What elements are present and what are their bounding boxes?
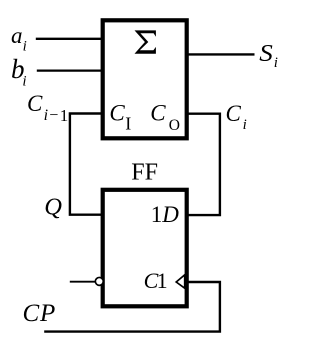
svg-text:I: I: [125, 114, 131, 134]
svg-text:1D: 1D: [151, 202, 180, 227]
label b_i: [11, 54, 27, 90]
svg-text:C: C: [226, 101, 242, 126]
svg-text:i: i: [243, 117, 247, 133]
inversion bubble on FF left input: [95, 277, 103, 285]
pin label CI: [109, 100, 131, 133]
wire net CP clock (CP to C1 pin): [44, 282, 220, 332]
wire output S_i: [187, 53, 255, 55]
svg-text:i: i: [44, 107, 48, 124]
svg-text:i: i: [274, 55, 278, 71]
flip-flop FF1 (D flip-flop): [103, 190, 187, 306]
svg-text:S: S: [259, 40, 273, 67]
label S_i: [259, 40, 278, 71]
svg-text:i: i: [23, 39, 27, 55]
svg-text:Q: Q: [44, 194, 62, 221]
svg-text:−: −: [49, 107, 58, 124]
label C_i-1: [27, 91, 68, 125]
wire stub to bubble: [70, 281, 96, 283]
svg-text:C: C: [150, 100, 166, 125]
svg-text:1: 1: [60, 106, 69, 125]
clock dynamic-edge triangle: [176, 275, 185, 288]
label C_i: [226, 101, 247, 133]
svg-text:C: C: [27, 91, 43, 116]
label a_i: [11, 23, 27, 55]
pin label CO: [150, 100, 180, 133]
pin label 1D: [151, 202, 180, 227]
wire net Q feedback (FF output to CI pin): [70, 114, 102, 215]
pin label C1: [144, 268, 168, 293]
svg-text:1: 1: [157, 268, 168, 293]
svg-text:C: C: [109, 100, 125, 125]
svg-text:a: a: [11, 23, 23, 48]
svg-text:CP: CP: [23, 300, 57, 327]
svg-text:O: O: [169, 117, 180, 134]
sigma symbol of adder: [135, 30, 156, 53]
label Q: [44, 194, 62, 221]
label FF: [131, 160, 158, 186]
wire input b_i: [37, 69, 102, 71]
adder block U1 (full adder): [103, 20, 187, 138]
wire input a_i: [36, 38, 102, 40]
wire net Ci (CO pin to 1D pin): [187, 114, 220, 215]
svg-text:i: i: [22, 73, 26, 89]
svg-text:FF: FF: [131, 160, 158, 186]
label CP: [23, 300, 57, 327]
